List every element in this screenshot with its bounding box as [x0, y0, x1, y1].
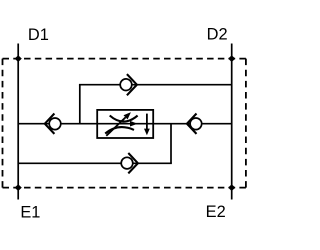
svg-text:E1: E1: [20, 204, 40, 222]
wire: port D2 stub: [231, 44, 233, 59]
wire: right vertical bus D2-E2: [231, 59, 233, 188]
flow control valve FC1 flow arrowhead: [130, 121, 138, 127]
enclosure dashed boundary (valve body envelope): [3, 59, 246, 188]
check valve CV2 (top branch): [120, 74, 137, 95]
svg-text:D2: D2: [207, 26, 228, 44]
wire: top branch horizontal: [79, 84, 232, 86]
flow control valve FC1 lower throttle arc: [105, 127, 134, 134]
wire: middle horizontal line (through flow control): [18, 123, 232, 125]
flow control valve FC1 compensator down arrow: [144, 114, 150, 136]
check valve CV4 (right, on middle line): [187, 114, 202, 134]
wire: port E1 stub: [17, 188, 19, 200]
node E2 junction diamond: [228, 184, 235, 191]
wire: top branch vertical drop: [79, 85, 81, 124]
wire: left vertical bus D1-E1: [17, 59, 19, 188]
flow control valve FC1 body: [97, 110, 153, 138]
svg-text:E2: E2: [206, 203, 226, 221]
check valve CV1 (left, on middle line): [45, 114, 61, 134]
node D1 junction diamond: [15, 55, 22, 62]
wire: bottom branch vertical riser: [170, 124, 172, 164]
svg-text:D1: D1: [28, 26, 49, 44]
flow control valve FC1 adjustment arrow: [106, 112, 131, 136]
flow control valve FC1 upper throttle arc: [110, 116, 138, 122]
wire: bottom branch horizontal: [18, 162, 172, 164]
check valve CV3 (bottom branch): [121, 153, 138, 173]
wire: port D1 stub: [17, 44, 19, 59]
node E1 junction diamond: [15, 184, 22, 191]
wire: port E2 stub: [231, 188, 233, 200]
node D2 junction diamond: [228, 55, 235, 62]
